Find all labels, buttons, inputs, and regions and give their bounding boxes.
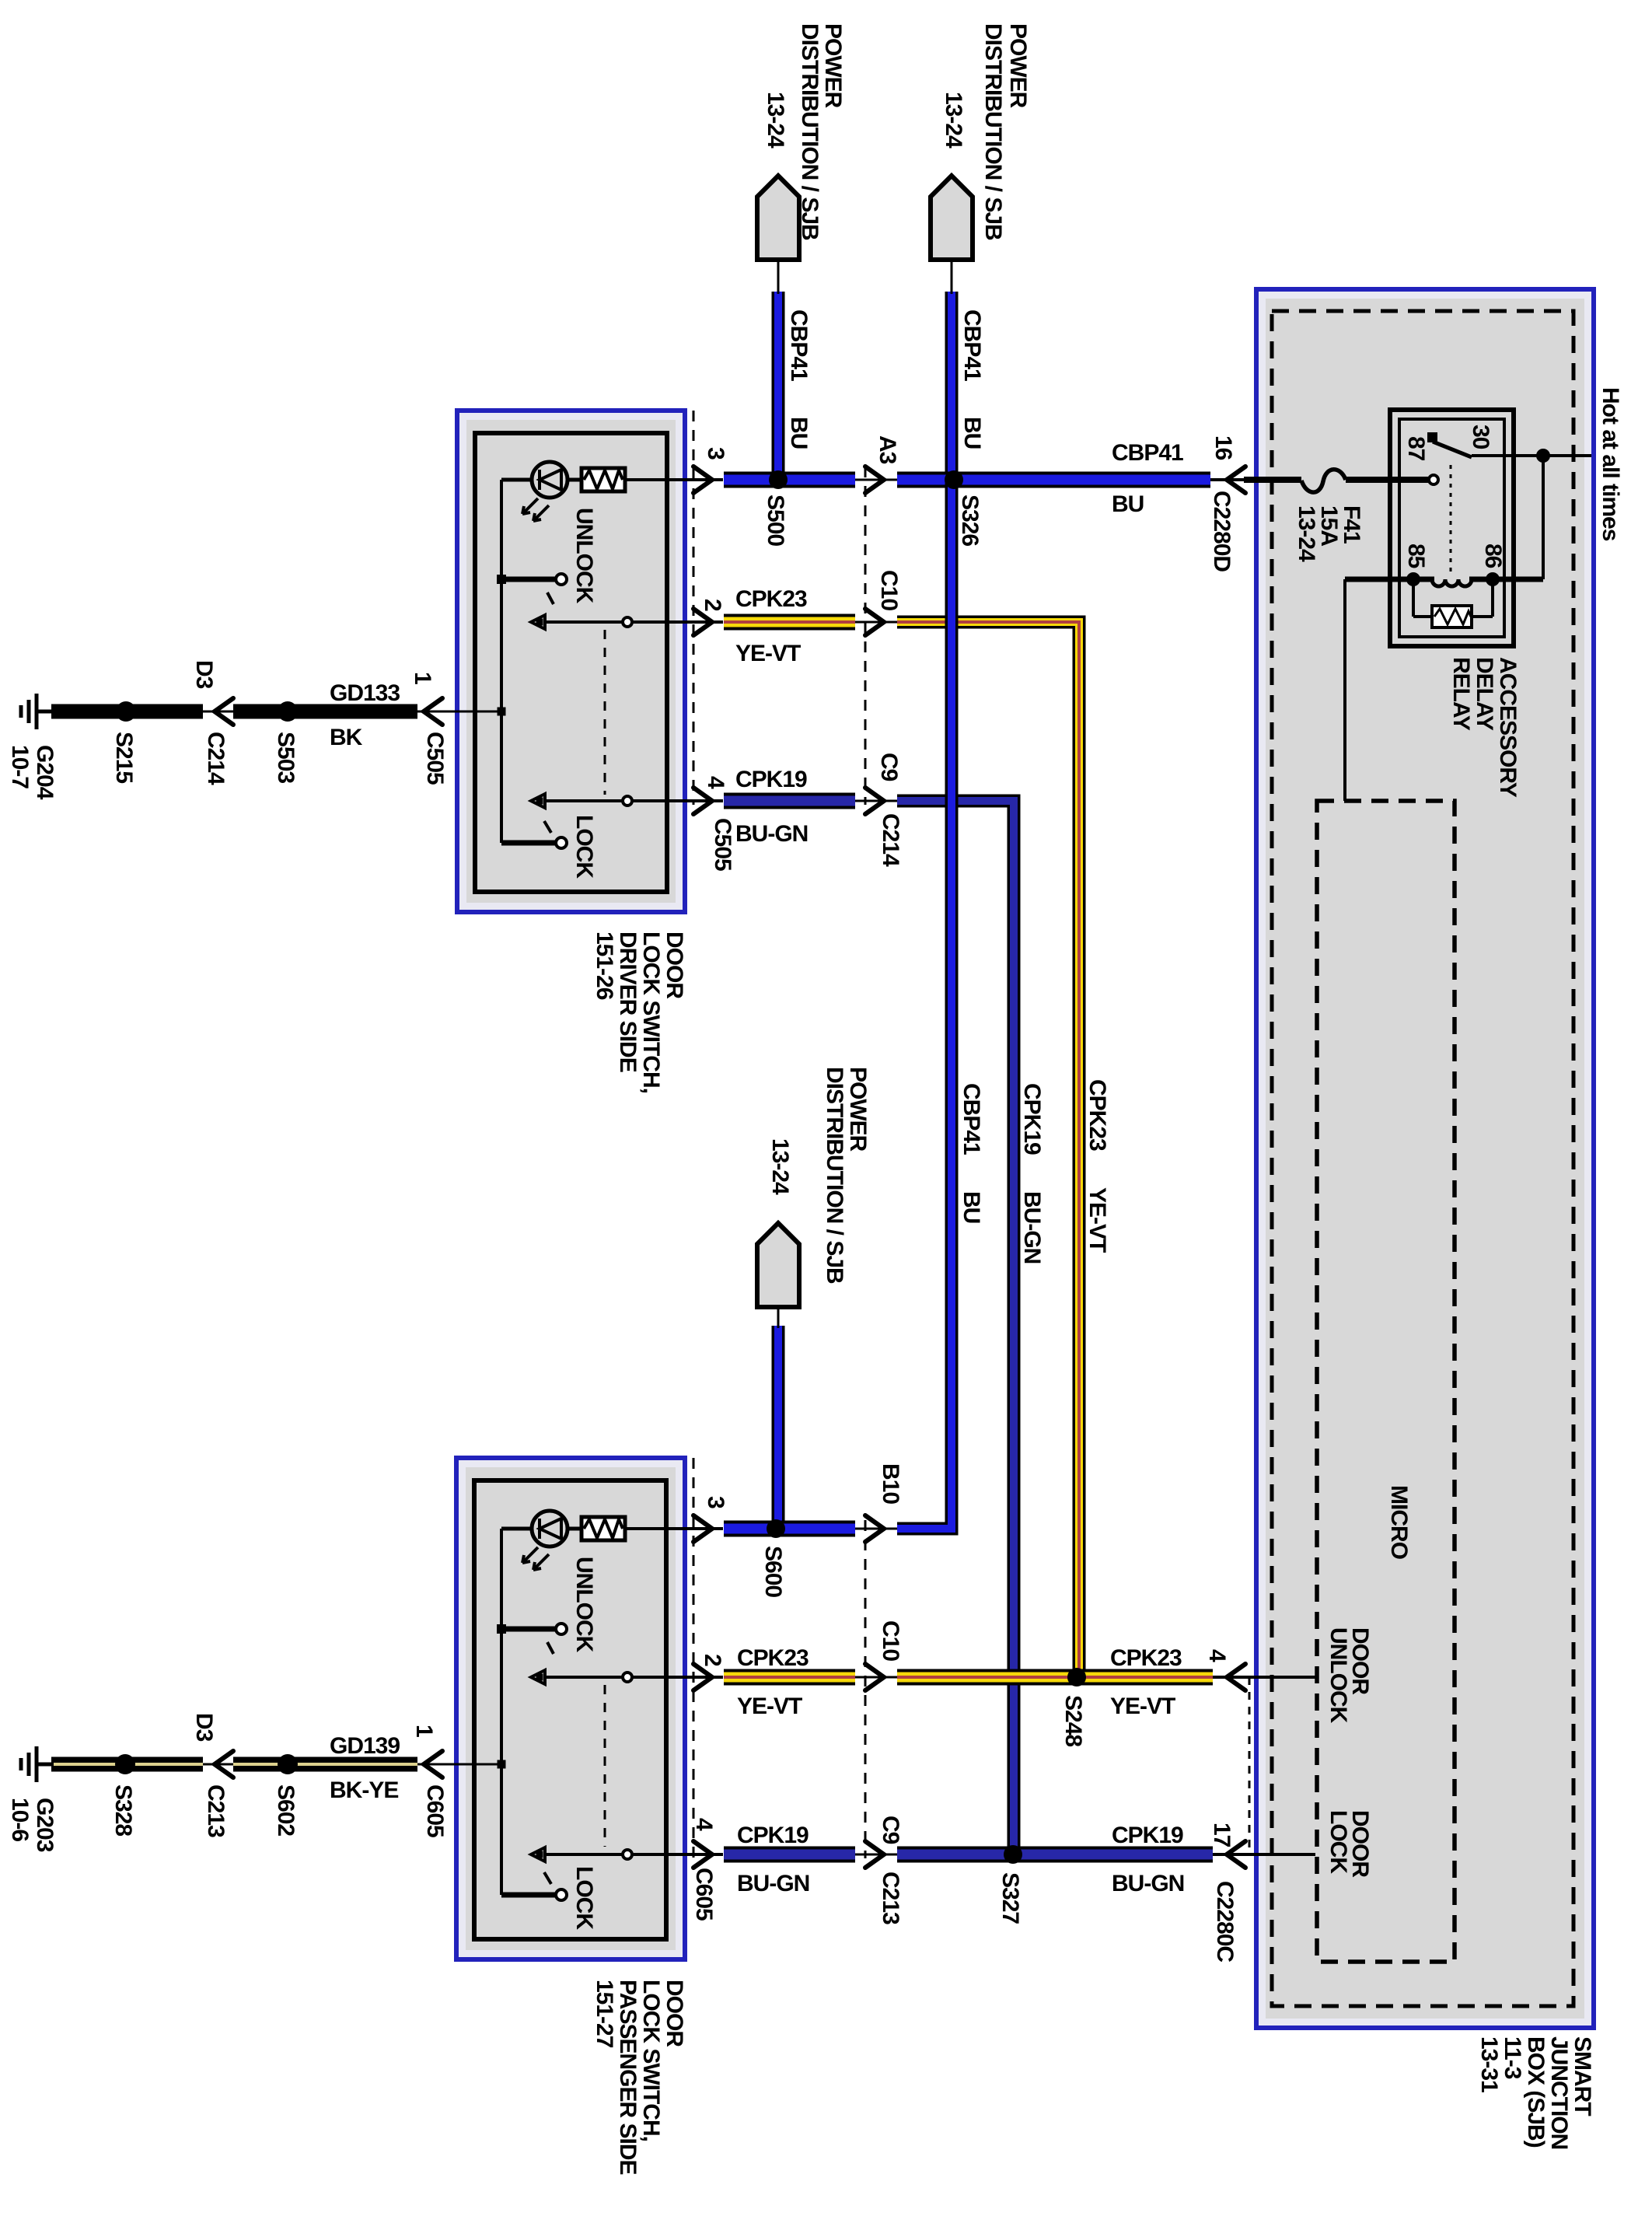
svg-text:1: 1 xyxy=(411,1725,437,1737)
svg-text:POWER: POWER xyxy=(845,1067,871,1152)
svg-text:CPK19: CPK19 xyxy=(1019,1083,1045,1155)
Smart Junction Box (SJB) outline xyxy=(1256,289,1594,2028)
connector C505 pin3 arrow xyxy=(693,467,712,493)
connector C9 arrow bottom xyxy=(865,1841,884,1868)
relay pin 87 contact xyxy=(1429,475,1438,484)
svg-text:C505: C505 xyxy=(422,732,448,785)
svg-text:S602: S602 xyxy=(273,1784,299,1836)
connector C2280D pin16 arrow xyxy=(1227,467,1245,493)
svg-text:S248: S248 xyxy=(1060,1695,1086,1746)
wire CPK19 BU-GN passenger pin4 to C9 xyxy=(724,1847,855,1863)
svg-text:C605: C605 xyxy=(691,1868,717,1921)
svg-text:LOCK: LOCK xyxy=(1325,1810,1351,1874)
connector C2280C pin4 arrow xyxy=(1227,1664,1245,1690)
wire CBP41 BU vertical from power distribution 1 xyxy=(772,292,785,476)
dashed connector line C505 driver xyxy=(693,411,695,805)
svg-text:ACCESSORY: ACCESSORY xyxy=(1495,657,1521,798)
svg-text:CPK19: CPK19 xyxy=(735,767,807,792)
svg-text:C605: C605 xyxy=(422,1784,448,1837)
svg-text:YE-VT: YE-VT xyxy=(737,1693,802,1719)
ground G204 xyxy=(21,694,54,729)
svg-text:D3: D3 xyxy=(191,1713,217,1742)
wire hot feed down to relay pin 86 row xyxy=(1542,456,1545,579)
svg-text:13-24: 13-24 xyxy=(767,1138,793,1195)
svg-text:B10: B10 xyxy=(878,1463,903,1504)
connector C9 arrow top xyxy=(865,788,884,814)
svg-text:30: 30 xyxy=(1468,425,1493,449)
wire CBP41 BU passenger pin3 through S600 to B10 xyxy=(724,1521,855,1537)
relay parallel resistor xyxy=(1412,579,1415,617)
splice S215 xyxy=(116,701,136,722)
wire CBP41 BU A3 through S326 to C2280D xyxy=(897,472,1210,488)
svg-text:S500: S500 xyxy=(763,495,788,546)
svg-text:LOCK SWITCH,: LOCK SWITCH, xyxy=(638,1980,664,2141)
passenger pin1 internal xyxy=(498,1760,506,1769)
power distribution / SJB connector 2 xyxy=(931,176,973,260)
svg-text:LOCK: LOCK xyxy=(571,815,597,879)
svg-text:YE-VT: YE-VT xyxy=(1110,1693,1175,1719)
svg-text:YE-VT: YE-VT xyxy=(735,641,801,666)
svg-text:BU-GN: BU-GN xyxy=(1019,1191,1045,1264)
driver UNLOCK switch xyxy=(497,575,506,584)
svg-text:MICRO: MICRO xyxy=(1386,1485,1412,1560)
connector C505 pin4 arrow xyxy=(693,788,712,814)
wire GD133 BK ground chain driver xyxy=(35,711,501,713)
svg-text:DOOR: DOOR xyxy=(662,931,687,999)
resistor passenger xyxy=(582,1517,625,1540)
svg-text:C214: C214 xyxy=(878,813,903,867)
passenger UNLOCK switch xyxy=(497,1624,506,1634)
svg-text:DISTRIBUTION / SJB: DISTRIBUTION / SJB xyxy=(822,1067,847,1284)
wire hot at all times feed to relay pin 30 xyxy=(1472,454,1591,457)
svg-text:UNLOCK: UNLOCK xyxy=(571,1557,597,1653)
svg-text:SMART: SMART xyxy=(1570,2036,1595,2116)
SJB inner dashed border xyxy=(1272,311,1573,2006)
relay pin 86 junction xyxy=(1486,572,1500,586)
driver switch gang dashed link xyxy=(604,630,606,795)
svg-text:10-6: 10-6 xyxy=(7,1798,33,1841)
wire relay pin85 down to MICRO xyxy=(1343,579,1346,801)
relay actuation dotted link xyxy=(1450,465,1452,572)
svg-text:151-26: 151-26 xyxy=(592,931,617,1000)
svg-text:S326: S326 xyxy=(957,495,983,546)
svg-text:PASSENGER SIDE: PASSENGER SIDE xyxy=(615,1980,641,2175)
wire CPK19 BU-GN from C9 elbow down to S327 xyxy=(897,801,1014,1854)
power distribution / SJB connector 3 xyxy=(757,1223,799,1307)
svg-text:S503: S503 xyxy=(273,732,299,783)
accessory delay relay box xyxy=(1390,410,1514,646)
svg-text:DISTRIBUTION / SJB: DISTRIBUTION / SJB xyxy=(980,23,1006,240)
svg-text:BU-GN: BU-GN xyxy=(1112,1871,1184,1896)
svg-text:17: 17 xyxy=(1209,1823,1235,1847)
wire CPK23 YE-VT passenger pin2 to C10 xyxy=(724,1669,855,1686)
wire CBP41 BU driver pin3 to A3 xyxy=(724,472,855,488)
connector C505 pin1 arrow xyxy=(424,698,442,725)
connector C605 pin1 arrow xyxy=(424,1751,442,1777)
svg-text:BU: BU xyxy=(959,417,985,449)
svg-text:C9: C9 xyxy=(876,753,902,781)
svg-text:C213: C213 xyxy=(203,1784,229,1837)
svg-text:CBP41: CBP41 xyxy=(786,309,812,381)
svg-text:S327: S327 xyxy=(997,1872,1023,1924)
svg-text:13-24: 13-24 xyxy=(941,92,966,149)
splice S248 xyxy=(1067,1668,1086,1686)
svg-text:BU-GN: BU-GN xyxy=(735,821,808,847)
svg-text:151-27: 151-27 xyxy=(592,1980,617,2048)
wire CPK23 YE-VT C10 through S248 to SJB pin4 xyxy=(897,1669,1213,1686)
svg-text:13-31: 13-31 xyxy=(1476,2036,1502,2092)
svg-text:C2280D: C2280D xyxy=(1209,491,1235,571)
svg-text:G204: G204 xyxy=(32,745,58,800)
splice S600 xyxy=(767,1519,785,1538)
svg-text:87: 87 xyxy=(1403,436,1429,461)
wire SJB pin17 DOOR LOCK xyxy=(1213,1853,1315,1856)
passenger LOCK switch xyxy=(531,1847,545,1861)
svg-text:2: 2 xyxy=(700,1654,725,1666)
wire fuse to C2280D pin16 xyxy=(1210,478,1247,481)
svg-text:GD139: GD139 xyxy=(330,1733,400,1759)
svg-text:C9: C9 xyxy=(878,1816,903,1844)
svg-text:DRIVER SIDE: DRIVER SIDE xyxy=(615,931,641,1072)
wire SJB pin4 DOOR UNLOCK xyxy=(1213,1676,1315,1679)
svg-text:UNLOCK: UNLOCK xyxy=(1325,1627,1351,1724)
svg-text:C214: C214 xyxy=(203,732,229,785)
LED indicator passenger xyxy=(532,1511,568,1547)
svg-text:4: 4 xyxy=(703,776,728,789)
relay coil row 85-86 xyxy=(1345,577,1434,582)
splice S326 xyxy=(945,470,963,489)
svg-text:CBP41: CBP41 xyxy=(959,1083,984,1155)
driver LOCK switch xyxy=(531,794,545,808)
svg-text:CPK23: CPK23 xyxy=(735,586,807,612)
svg-text:UNLOCK: UNLOCK xyxy=(571,508,597,604)
wire CPK23 YE-VT from C10 elbow down to S248 xyxy=(897,622,1079,1677)
svg-text:BU: BU xyxy=(1112,491,1144,517)
svg-text:BU: BU xyxy=(786,417,812,449)
wire CBP41 BU vertical from power distribution 2 xyxy=(945,292,959,476)
svg-text:G203: G203 xyxy=(32,1798,58,1852)
splice S327 xyxy=(1004,1845,1022,1864)
svg-text:CPK23: CPK23 xyxy=(737,1645,809,1671)
passenger switch internal wiring xyxy=(500,1529,503,1895)
svg-text:POWER: POWER xyxy=(1005,23,1031,109)
svg-text:13-24: 13-24 xyxy=(763,92,788,149)
svg-text:11-3: 11-3 xyxy=(1500,2036,1525,2079)
svg-text:2: 2 xyxy=(700,599,725,611)
svg-text:YE-VT: YE-VT xyxy=(1084,1187,1110,1253)
svg-text:Hot at all times: Hot at all times xyxy=(1598,387,1623,541)
wire CBP41 BU vertical from power distribution 3 xyxy=(772,1326,785,1525)
svg-text:JUNCTION: JUNCTION xyxy=(1546,2036,1572,2149)
connector A3 arrow xyxy=(865,467,884,493)
power distribution / SJB connector 1 xyxy=(757,176,799,260)
svg-text:CBP41: CBP41 xyxy=(959,309,985,381)
connector C10 arrow bottom xyxy=(865,1664,884,1690)
svg-text:C10: C10 xyxy=(878,1620,903,1661)
dashed connector line C605 passenger xyxy=(693,1458,695,1858)
svg-text:RELAY: RELAY xyxy=(1448,657,1474,731)
splice S602 xyxy=(278,1754,298,1774)
svg-text:POWER: POWER xyxy=(820,23,846,109)
dashed connector line A3/C10/C9 top xyxy=(864,467,867,805)
svg-text:C505: C505 xyxy=(710,818,735,871)
svg-text:3: 3 xyxy=(703,1496,728,1508)
svg-text:BU-GN: BU-GN xyxy=(737,1871,809,1896)
passenger switch gang dashed link xyxy=(604,1685,606,1847)
wire CPK23 YE-VT driver pin2 to C10 xyxy=(724,614,855,631)
svg-text:13-24: 13-24 xyxy=(1294,505,1319,562)
splice S503 xyxy=(278,701,298,722)
svg-text:C213: C213 xyxy=(878,1872,903,1924)
connector C605 pin4 arrow xyxy=(693,1841,712,1868)
relay pin 85 junction xyxy=(1406,572,1420,586)
resistor driver xyxy=(582,468,625,491)
svg-text:LOCK: LOCK xyxy=(571,1866,597,1930)
svg-text:CPK23: CPK23 xyxy=(1110,1645,1182,1671)
svg-text:85: 85 xyxy=(1403,544,1429,568)
svg-text:16: 16 xyxy=(1210,435,1236,460)
connector D3 C213 arrow xyxy=(215,1751,233,1777)
connector C505 pin2 arrow xyxy=(693,609,712,635)
connector C10 arrow top xyxy=(865,609,884,635)
junction hot feed xyxy=(1536,449,1550,463)
svg-text:CPK23: CPK23 xyxy=(1084,1079,1110,1151)
wire CPK19 BU-GN C9 through S327 to SJB pin17 xyxy=(897,1847,1213,1863)
wire CPK19 BU-GN driver pin4 to C9 xyxy=(724,793,855,809)
svg-text:DELAY: DELAY xyxy=(1472,657,1497,731)
svg-text:10-7: 10-7 xyxy=(7,745,33,788)
svg-text:BU: BU xyxy=(959,1191,984,1223)
connector C2280C pin17 arrow xyxy=(1227,1841,1245,1868)
LED indicator driver xyxy=(532,462,568,498)
svg-text:BK-YE: BK-YE xyxy=(330,1777,398,1803)
fuse F41 15A symbol xyxy=(1301,470,1346,492)
svg-text:DOOR: DOOR xyxy=(662,1980,687,2047)
ground G203 xyxy=(21,1746,54,1782)
svg-text:CBP41: CBP41 xyxy=(1112,440,1183,466)
wire GD139 BK-YE ground chain passenger xyxy=(35,1763,501,1766)
svg-text:S215: S215 xyxy=(111,732,137,783)
svg-text:GD133: GD133 xyxy=(330,680,400,706)
svg-text:D3: D3 xyxy=(191,660,217,689)
driver switch internal wiring xyxy=(500,480,503,843)
door lock switch driver side box xyxy=(457,411,685,912)
dashed connector line B10/C10/C9 bottom xyxy=(864,1520,867,1858)
dashed connector line C2280C xyxy=(1249,1677,1251,1854)
connector B10 arrow xyxy=(865,1515,884,1542)
svg-text:C10: C10 xyxy=(876,570,902,610)
svg-text:3: 3 xyxy=(703,447,728,460)
splice S500 xyxy=(769,470,788,489)
svg-text:S600: S600 xyxy=(760,1546,786,1597)
svg-text:BOX (SJB): BOX (SJB) xyxy=(1523,2036,1549,2148)
svg-text:CPK19: CPK19 xyxy=(1112,1823,1183,1848)
connector C605 pin3 arrow xyxy=(693,1515,712,1542)
relay switch contact 30-87 xyxy=(1427,432,1437,442)
splice S328 xyxy=(115,1754,135,1774)
wire relay pin87 to fuse F41 xyxy=(1346,477,1429,483)
svg-text:S328: S328 xyxy=(110,1784,136,1836)
door lock switch passenger side box xyxy=(456,1458,685,1959)
svg-text:LOCK SWITCH,: LOCK SWITCH, xyxy=(638,931,664,1093)
svg-text:1: 1 xyxy=(410,672,435,684)
connector D3 C214 arrow xyxy=(215,698,233,725)
svg-text:86: 86 xyxy=(1480,544,1506,568)
connector C605 pin2 arrow xyxy=(693,1664,712,1690)
svg-text:4: 4 xyxy=(691,1818,717,1831)
svg-text:BK: BK xyxy=(330,725,363,750)
wire CBP41 BU long vertical S326 to B10 elbow xyxy=(897,480,952,1529)
MICRO dashed box xyxy=(1317,801,1455,1962)
svg-text:C2280C: C2280C xyxy=(1212,1881,1238,1962)
driver pin1 internal xyxy=(498,708,506,716)
svg-text:CPK19: CPK19 xyxy=(737,1823,809,1848)
svg-text:A3: A3 xyxy=(875,435,900,464)
svg-text:4: 4 xyxy=(1204,1649,1230,1662)
svg-text:DISTRIBUTION / SJB: DISTRIBUTION / SJB xyxy=(797,23,823,240)
